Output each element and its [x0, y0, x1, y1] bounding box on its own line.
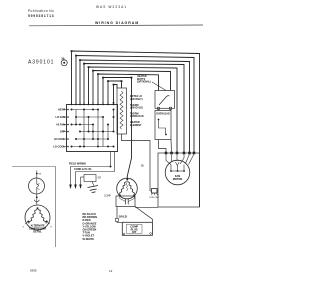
- svg-text:RUN CAP: RUN CAP: [150, 196, 160, 199]
- svg-text:OVLD: OVLD: [119, 215, 127, 219]
- svg-text:GR: GR: [98, 178, 102, 180]
- svg-text:OVERLOAD: OVERLOAD: [130, 115, 144, 118]
- svg-text:Publication No: Publication No: [28, 9, 54, 13]
- svg-text:(SW-OVLD): (SW-OVLD): [130, 107, 143, 110]
- svg-text:COMP: COMP: [104, 196, 111, 198]
- svg-text:W-WHITE: W-WHITE: [83, 237, 95, 241]
- svg-text:WAS W223A1: WAS W223A1: [96, 5, 127, 9]
- svg-text:5995351713: 5995351713: [28, 14, 54, 18]
- svg-text:ELEMENT: ELEMENT: [130, 124, 142, 127]
- svg-text:DETAIL: DETAIL: [33, 231, 42, 234]
- svg-text:FIELD WIRING: FIELD WIRING: [69, 162, 86, 165]
- svg-text:OVERLOAD: OVERLOAD: [156, 113, 170, 116]
- svg-text:12: 12: [109, 269, 113, 273]
- svg-text:(SW ONLY): (SW ONLY): [130, 98, 143, 101]
- svg-text:CORD & PLUG: CORD & PLUG: [74, 168, 92, 171]
- svg-text:(OPTIONAL): (OPTIONAL): [137, 81, 151, 84]
- svg-text:BK: BK: [141, 165, 145, 167]
- svg-text:A390101: A390101: [28, 59, 54, 65]
- svg-text:5995: 5995: [30, 269, 37, 273]
- svg-text:MOTOR: MOTOR: [173, 177, 183, 181]
- svg-text:WIRING DIAGRAM: WIRING DIAGRAM: [95, 21, 139, 25]
- svg-text:KIT: KIT: [132, 230, 137, 234]
